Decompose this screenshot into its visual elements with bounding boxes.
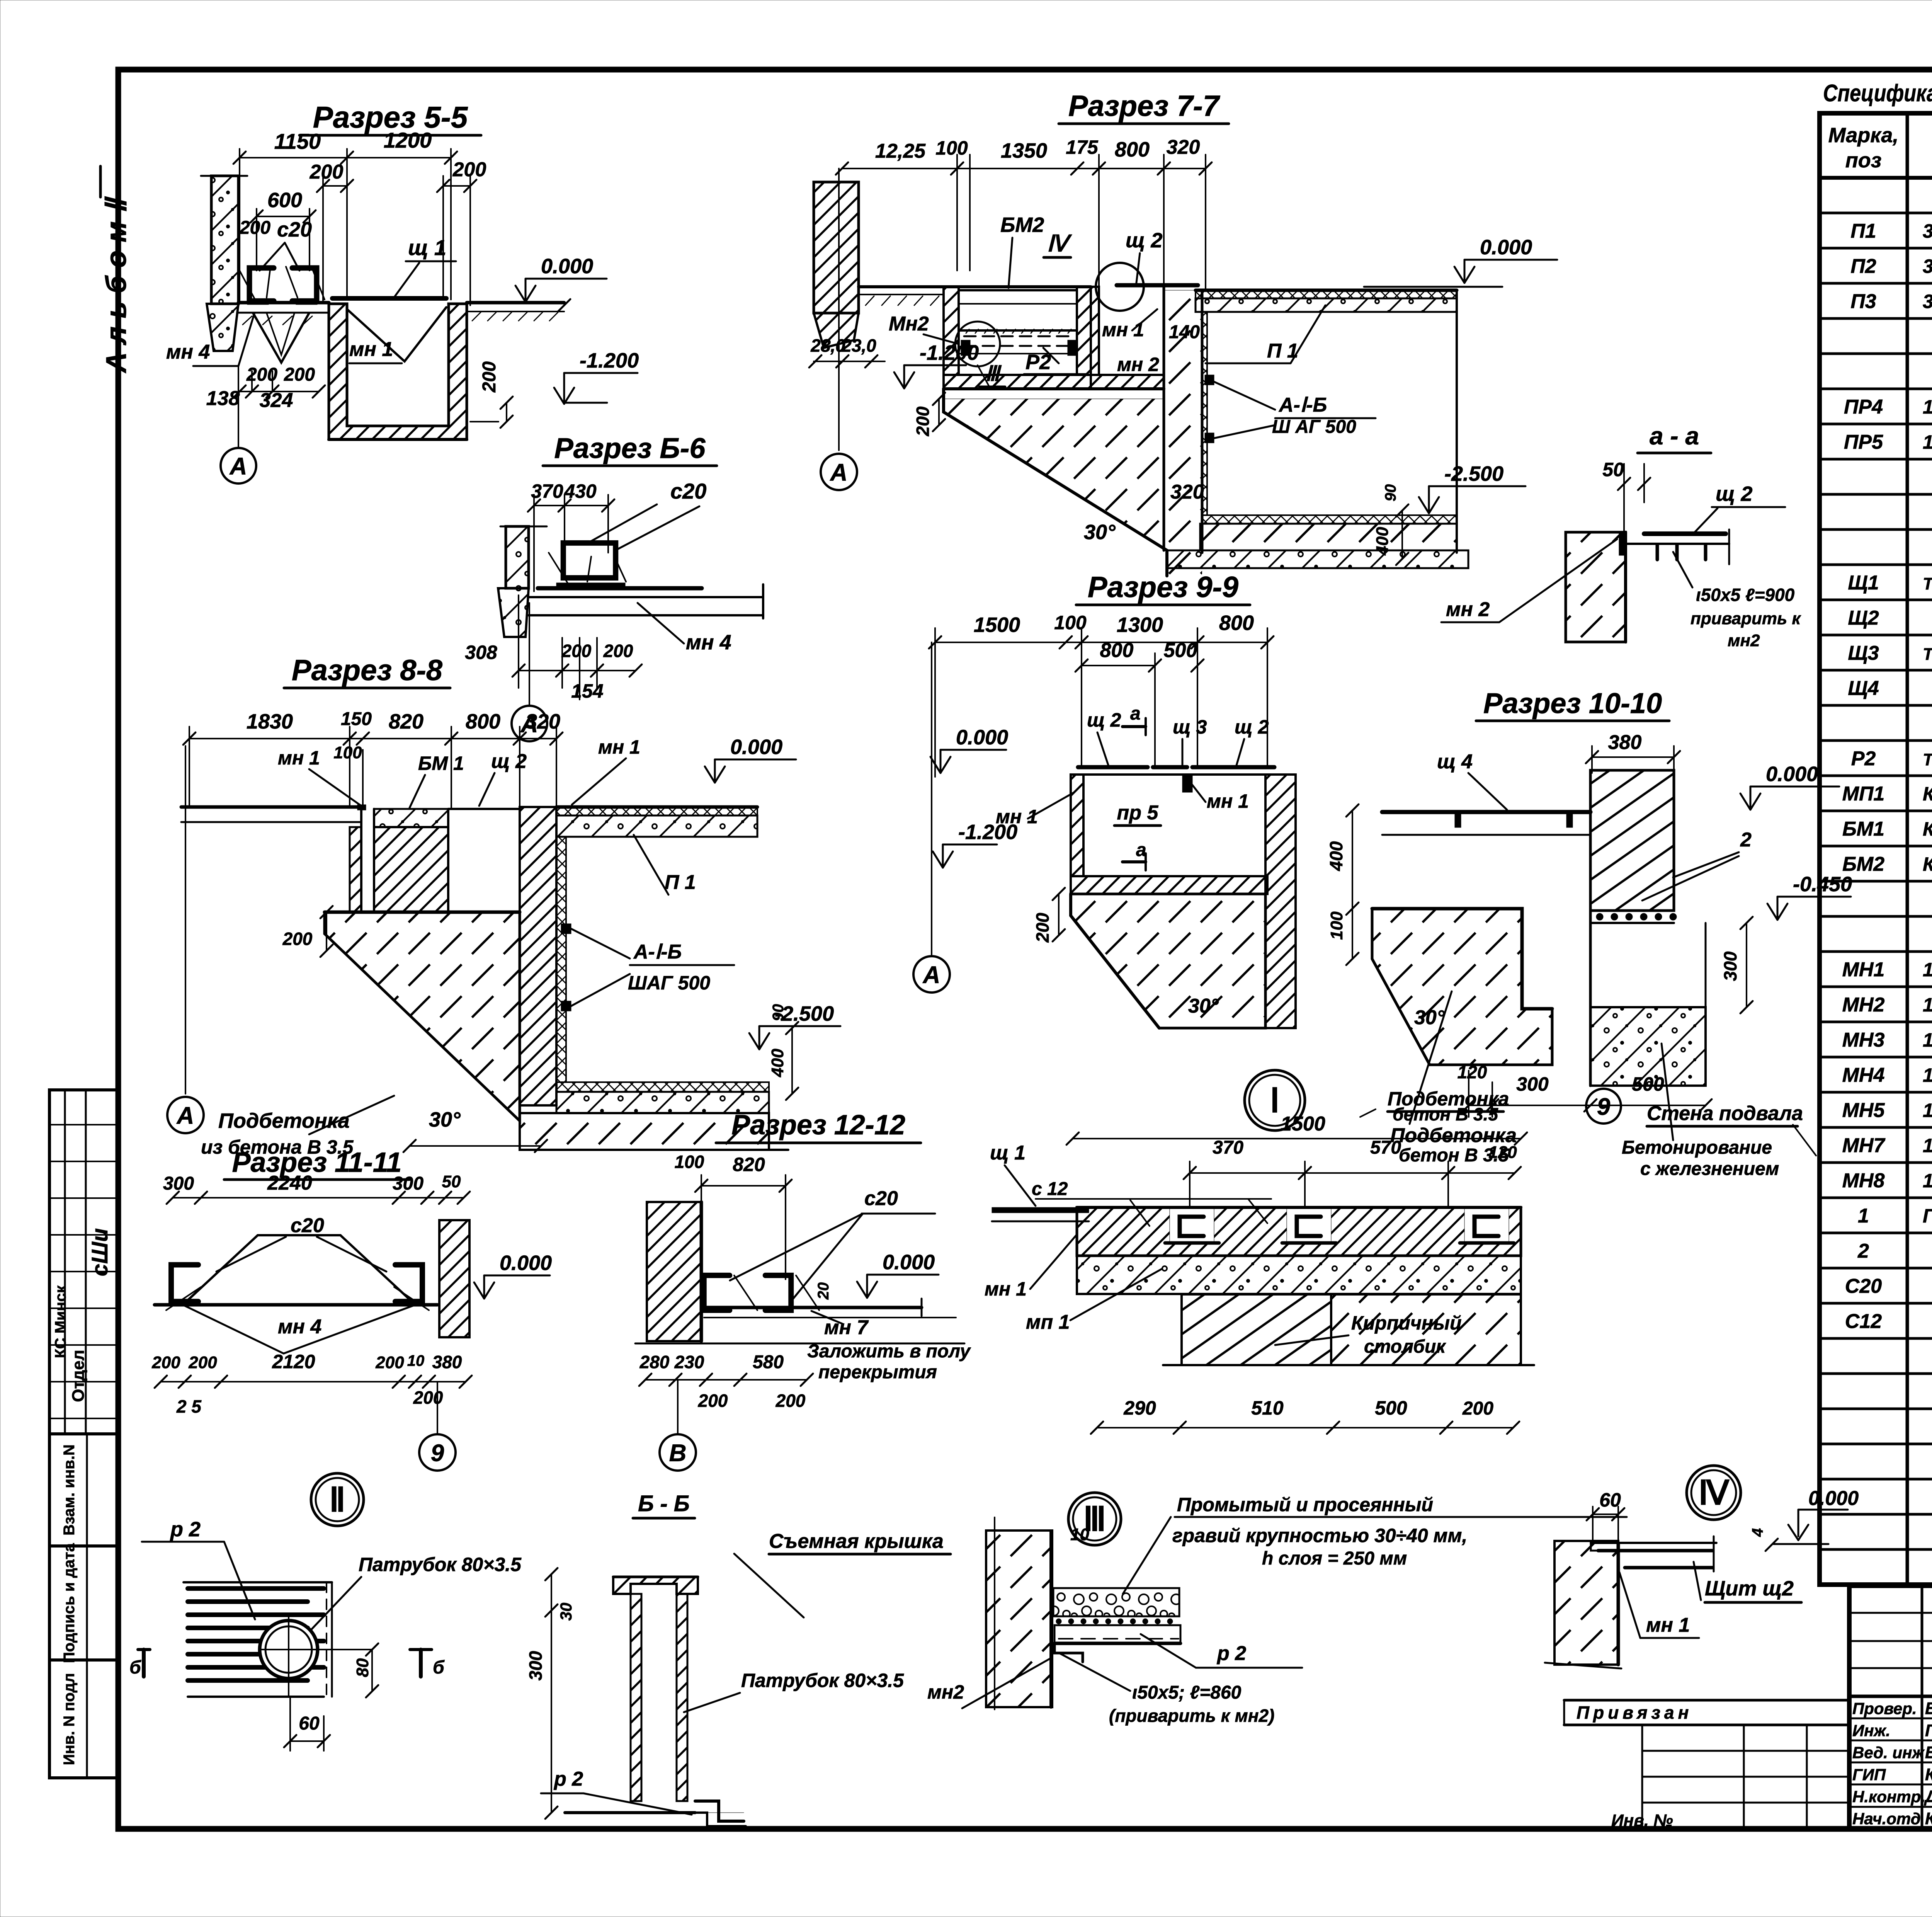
svg-text:ШАГ 500: ШАГ 500 xyxy=(628,972,710,994)
svg-text:300: 300 xyxy=(1720,951,1740,981)
svg-text:Н.контр.: Н.контр. xyxy=(1852,1788,1925,1806)
svg-text:Подпись и дата: Подпись и дата xyxy=(61,1543,78,1663)
svg-text:30°: 30° xyxy=(1188,995,1219,1017)
node III detail xyxy=(927,1493,1627,1726)
svg-text:200: 200 xyxy=(913,406,933,436)
svg-text:ТП902-1-134.88 КЖ.И 33.00: ТП902-1-134.88 КЖ.И 33.00 xyxy=(1923,750,1932,769)
svg-text:А: А xyxy=(176,1102,194,1129)
svg-text:Стена подвала: Стена подвала xyxy=(1647,1102,1803,1125)
svg-text:510: 510 xyxy=(1251,1397,1284,1419)
svg-text:500: 500 xyxy=(1375,1397,1407,1419)
svg-text:2: 2 xyxy=(1857,1240,1869,1262)
svg-text:БМ 1: БМ 1 xyxy=(418,752,464,774)
svg-text:1.400-15.В1. 430-07: 1.400-15.В1. 430-07 xyxy=(1923,1170,1932,1192)
svg-text:б: б xyxy=(433,1657,445,1678)
section 12-12 xyxy=(635,1110,971,1471)
svg-text:Взам. инв.N: Взам. инв.N xyxy=(61,1444,78,1536)
svg-text:0.000: 0.000 xyxy=(500,1251,552,1275)
svg-text:20: 20 xyxy=(815,1282,832,1300)
svg-text:Съемная крышка: Съемная крышка xyxy=(769,1530,944,1553)
svg-text:Заложить в полу: Заложить в полу xyxy=(807,1341,971,1362)
svg-text:12,25: 12,25 xyxy=(875,140,926,162)
svg-text:120: 120 xyxy=(1458,1062,1487,1082)
svg-text:30°: 30° xyxy=(429,1108,461,1131)
svg-text:320: 320 xyxy=(1167,136,1200,158)
svg-text:мн 1: мн 1 xyxy=(278,747,320,769)
svg-text:Бабикова: Бабикова xyxy=(1925,1743,1932,1762)
svg-text:Мн2: Мн2 xyxy=(889,313,929,335)
svg-text:800: 800 xyxy=(1115,138,1150,161)
svg-text:с20: с20 xyxy=(670,479,706,503)
svg-text:0.000: 0.000 xyxy=(1480,236,1532,259)
svg-text:Б - Б: Б - Б xyxy=(638,1491,690,1516)
svg-text:200: 200 xyxy=(151,1353,180,1372)
small revision table xyxy=(1564,1699,1849,1702)
svg-text:мн 1: мн 1 xyxy=(598,736,640,758)
section 9-9 xyxy=(913,571,1296,1028)
svg-text:МН4: МН4 xyxy=(1842,1064,1885,1086)
svg-text:р 2: р 2 xyxy=(1216,1642,1246,1665)
svg-text:А: А xyxy=(229,453,247,480)
svg-text:3.00Б.1-2/82.1-2.0-ББ: 3.00Б.1-2/82.1-2.0-ББ xyxy=(1923,220,1932,242)
svg-text:1.400-15.В1. 520-09: 1.400-15.В1. 520-09 xyxy=(1923,1100,1932,1121)
svg-text:МН2: МН2 xyxy=(1842,994,1885,1016)
svg-text:200: 200 xyxy=(284,364,315,385)
left margin stamp (lower) xyxy=(49,1434,118,1778)
svg-text:р 2: р 2 xyxy=(170,1518,201,1541)
svg-text:Ⅰ: Ⅰ xyxy=(1270,1082,1279,1119)
svg-text:ТП902-1-134.88КЖ.И 31.00: ТП902-1-134.88КЖ.И 31.00 xyxy=(1923,574,1932,593)
svg-text:Нач.отд: Нач.отд xyxy=(1852,1810,1921,1828)
svg-text:3.00Б.1-2/82.1-2-1.0-082: 3.00Б.1-2/82.1-2-1.0-082 xyxy=(1923,291,1932,312)
svg-text:мн2: мн2 xyxy=(1728,631,1760,650)
c20 channels xyxy=(563,543,589,578)
svg-text:0.000: 0.000 xyxy=(883,1251,935,1274)
svg-text:Ⅲ: Ⅲ xyxy=(985,362,1002,385)
svg-text:ι50х5; ℓ=860: ι50х5; ℓ=860 xyxy=(1132,1682,1242,1703)
svg-text:200: 200 xyxy=(375,1353,404,1372)
node II detail (grate) xyxy=(129,1473,522,1751)
svg-text:а: а xyxy=(1130,703,1141,724)
svg-text:Щ2: Щ2 xyxy=(1848,607,1879,629)
svg-text:300: 300 xyxy=(1516,1073,1549,1095)
svg-text:мн 2: мн 2 xyxy=(1446,598,1490,621)
section 8-8 xyxy=(167,654,840,1158)
svg-text:1150: 1150 xyxy=(274,129,321,153)
svg-text:с 12: с 12 xyxy=(1032,1179,1068,1199)
svg-text:А-Ⅰ-Б: А-Ⅰ-Б xyxy=(633,941,682,963)
svg-text:380: 380 xyxy=(1608,731,1642,754)
svg-text:столбик: столбик xyxy=(1364,1336,1446,1357)
svg-text:230: 230 xyxy=(674,1352,704,1372)
svg-text:Бабикова: Бабикова xyxy=(1925,1699,1932,1718)
svg-text:10: 10 xyxy=(407,1352,425,1369)
svg-text:1300: 1300 xyxy=(1117,613,1163,637)
svg-text:30: 30 xyxy=(557,1603,575,1621)
title block xyxy=(1849,1586,1932,1829)
svg-text:-2.500: -2.500 xyxy=(1444,462,1503,485)
svg-text:28,0: 28,0 xyxy=(810,335,845,356)
svg-text:щ 2: щ 2 xyxy=(1716,482,1753,506)
svg-text:1.400-15.В1. 430-06: 1.400-15.В1. 430-06 xyxy=(1923,1064,1932,1086)
svg-text:пр 5: пр 5 xyxy=(1117,802,1159,824)
svg-text:138: 138 xyxy=(206,387,240,410)
svg-text:100: 100 xyxy=(333,743,362,762)
svg-text:430: 430 xyxy=(564,480,597,502)
svg-text:перекрытия: перекрытия xyxy=(818,1362,937,1382)
svg-text:0.000: 0.000 xyxy=(1766,763,1818,786)
svg-text:320: 320 xyxy=(1170,481,1204,503)
svg-text:150: 150 xyxy=(341,709,372,729)
svg-text:мн 2: мн 2 xyxy=(1117,354,1159,375)
left margin stamp (upper) xyxy=(49,1090,118,1434)
svg-text:300: 300 xyxy=(526,1651,546,1680)
svg-text:С20: С20 xyxy=(1845,1275,1882,1297)
svg-text:Инв. №: Инв. № xyxy=(1611,1811,1673,1830)
svg-text:380: 380 xyxy=(432,1352,462,1372)
section 11-11 xyxy=(151,1147,552,1471)
album label xyxy=(100,166,132,373)
svg-text:Красавин: Красавин xyxy=(1925,1809,1932,1828)
svg-text:100: 100 xyxy=(675,1152,704,1172)
svg-text:200: 200 xyxy=(452,158,486,181)
svg-text:90: 90 xyxy=(1382,484,1399,502)
svg-text:мн 1: мн 1 xyxy=(985,1278,1027,1300)
svg-text:ι50х5 ℓ=900: ι50х5 ℓ=900 xyxy=(1696,585,1795,605)
svg-text:(приварить к мн2): (приварить к мн2) xyxy=(1109,1706,1274,1726)
svg-text:гравий крупностью 30÷40 мм,: гравий крупностью 30÷40 мм, xyxy=(1172,1525,1467,1546)
svg-text:600: 600 xyxy=(267,189,302,212)
svg-text:а - а: а - а xyxy=(1650,422,1699,450)
svg-text:290: 290 xyxy=(1123,1397,1156,1419)
svg-text:МН7: МН7 xyxy=(1842,1134,1886,1157)
svg-text:б: б xyxy=(129,1657,141,1678)
svg-text:ПР5: ПР5 xyxy=(1844,431,1883,453)
svg-text:1.038.1-1.1.010000-01: 1.038.1-1.1.010000-01 xyxy=(1923,431,1932,453)
svg-text:1500: 1500 xyxy=(974,613,1020,637)
svg-text:0.000: 0.000 xyxy=(541,255,593,278)
svg-text:1500: 1500 xyxy=(1281,1113,1325,1135)
svg-text:МН1: МН1 xyxy=(1842,958,1885,981)
svg-text:щ 4: щ 4 xyxy=(1437,751,1473,773)
svg-text:500: 500 xyxy=(1164,639,1197,662)
section 7-7 xyxy=(809,90,1557,576)
svg-text:154: 154 xyxy=(571,680,603,702)
svg-text:1: 1 xyxy=(1858,1205,1869,1227)
svg-text:мн 1: мн 1 xyxy=(349,338,393,361)
svg-text:Разрез 7-7: Разрез 7-7 xyxy=(1068,90,1221,123)
svg-text:Ⅳ: Ⅳ xyxy=(1698,1474,1730,1512)
svg-text:мн 4: мн 4 xyxy=(166,341,210,363)
svg-text:мн 1: мн 1 xyxy=(1207,790,1249,812)
svg-text:КЖ-9: КЖ-9 xyxy=(1923,783,1932,805)
svg-text:23,0: 23,0 xyxy=(841,335,876,356)
svg-text:400: 400 xyxy=(1373,527,1392,556)
svg-text:1.400-15.В1. 420-15: 1.400-15.В1. 420-15 xyxy=(1923,1135,1932,1156)
specification table xyxy=(1820,113,1932,1585)
svg-text:щ 2: щ 2 xyxy=(1087,709,1121,731)
svg-text:МН5: МН5 xyxy=(1842,1099,1885,1122)
svg-text:0.000: 0.000 xyxy=(956,726,1008,749)
svg-text:КЖ-9: КЖ-9 xyxy=(1923,853,1932,875)
svg-text:200: 200 xyxy=(561,641,592,661)
svg-text:мн 4: мн 4 xyxy=(686,631,731,654)
svg-text:Щ1: Щ1 xyxy=(1848,572,1879,594)
svg-text:200: 200 xyxy=(310,161,344,183)
svg-text:2 5: 2 5 xyxy=(176,1396,202,1416)
svg-text:175: 175 xyxy=(1066,136,1099,158)
svg-text:МП1: МП1 xyxy=(1842,783,1885,805)
svg-text:90: 90 xyxy=(770,1004,787,1021)
svg-text:ГОСТ 10704-76: ГОСТ 10704-76 xyxy=(1923,1205,1932,1227)
svg-text:Промытый и просеянный: Промытый и просеянный xyxy=(1177,1494,1433,1515)
svg-text:200: 200 xyxy=(1032,913,1053,943)
svg-text:А: А xyxy=(830,459,848,486)
svg-text:КС Минск: КС Минск xyxy=(52,1285,69,1358)
svg-text:60: 60 xyxy=(299,1713,320,1734)
svg-text:МН8: МН8 xyxy=(1842,1170,1885,1192)
svg-text:щ 2: щ 2 xyxy=(1126,229,1163,252)
svg-text:П2: П2 xyxy=(1850,255,1876,278)
svg-text:200: 200 xyxy=(603,641,633,661)
svg-text:Вед. инж: Вед. инж xyxy=(1852,1743,1925,1762)
svg-text:Щит щ2: Щит щ2 xyxy=(1705,1577,1794,1600)
svg-text:200: 200 xyxy=(413,1388,443,1408)
detail Б-Б (removable cover) xyxy=(526,1491,951,1826)
svg-text:щ 1: щ 1 xyxy=(990,1142,1026,1164)
wall (concrete) xyxy=(506,526,529,588)
svg-text:приварить к: приварить к xyxy=(1690,609,1801,628)
svg-text:1350: 1350 xyxy=(1001,139,1047,162)
svg-text:320: 320 xyxy=(526,710,560,733)
shield plate xyxy=(556,583,591,588)
c20 channels xyxy=(250,268,274,301)
svg-text:щ 1: щ 1 xyxy=(408,235,446,260)
svg-text:Отдел: Отдел xyxy=(69,1350,88,1402)
svg-text:ПР4: ПР4 xyxy=(1844,396,1883,418)
svg-text:Щ3: Щ3 xyxy=(1848,642,1879,664)
svg-text:3.00Б.1-2/82.1-2-1.0-094: 3.00Б.1-2/82.1-2-1.0-094 xyxy=(1923,255,1932,277)
section 6-6 xyxy=(465,432,763,741)
svg-text:П 1: П 1 xyxy=(665,871,696,894)
svg-text:0.000: 0.000 xyxy=(1808,1487,1859,1510)
svg-text:1.038.1-1.1 020000-04: 1.038.1-1.1 020000-04 xyxy=(1923,396,1932,418)
svg-text:МН3: МН3 xyxy=(1842,1029,1885,1051)
svg-text:Провер.: Провер. xyxy=(1852,1699,1917,1718)
svg-text:200: 200 xyxy=(479,361,500,393)
floor slab with MN4 anchors xyxy=(238,301,329,305)
svg-text:Марка,: Марка, xyxy=(1828,124,1899,147)
svg-text:Кирпичный: Кирпичный xyxy=(1351,1312,1462,1334)
svg-text:Разрез 8-8: Разрез 8-8 xyxy=(292,654,443,687)
svg-text:200: 200 xyxy=(1462,1398,1493,1419)
svg-text:570: 570 xyxy=(1370,1137,1401,1158)
svg-text:9: 9 xyxy=(1597,1093,1611,1120)
svg-text:КЖ-9: КЖ-9 xyxy=(1923,818,1932,840)
MN4 anchor xyxy=(253,313,309,363)
svg-text:400: 400 xyxy=(768,1049,787,1078)
svg-text:Р2: Р2 xyxy=(1851,747,1876,770)
svg-text:200: 200 xyxy=(776,1391,806,1411)
svg-text:300: 300 xyxy=(393,1173,423,1194)
svg-text:Данилевский: Данилевский xyxy=(1923,1787,1932,1806)
svg-text:поз: поз xyxy=(1845,149,1882,172)
svg-text:щ 3: щ 3 xyxy=(1173,716,1207,738)
svg-text:500: 500 xyxy=(1632,1073,1664,1095)
svg-text:Голованова: Голованова xyxy=(1925,1721,1932,1740)
node I detail xyxy=(985,1070,1816,1434)
svg-text:820: 820 xyxy=(389,710,423,733)
svg-text:200: 200 xyxy=(188,1353,217,1372)
svg-text:-1.200: -1.200 xyxy=(580,349,639,372)
svg-text:1.400-15.В1. 110-11: 1.400-15.В1. 110-11 xyxy=(1923,994,1932,1016)
svg-text:9: 9 xyxy=(431,1440,444,1466)
svg-text:1.400-15.В1. 540-09: 1.400-15.В1. 540-09 xyxy=(1923,959,1932,981)
svg-text:с20: с20 xyxy=(291,1214,324,1237)
svg-text:Патрубок 80×3.5: Патрубок 80×3.5 xyxy=(741,1670,904,1691)
svg-text:мн2: мн2 xyxy=(927,1681,964,1703)
svg-text:мн 4: мн 4 xyxy=(278,1316,321,1338)
svg-text:БМ2: БМ2 xyxy=(1000,213,1044,237)
svg-text:Спецификация к схеме распол: Спецификация к схеме расположения плит п… xyxy=(1823,80,1932,107)
svg-text:А: А xyxy=(922,962,940,988)
svg-text:Ⅱ: Ⅱ xyxy=(329,1481,345,1519)
svg-text:100: 100 xyxy=(935,137,968,159)
svg-text:0.000: 0.000 xyxy=(730,735,782,759)
svg-text:бетон В 3.5: бетон В 3.5 xyxy=(1393,1104,1498,1124)
svg-text:Ш АГ 500: Ш АГ 500 xyxy=(1272,417,1356,437)
svg-text:мн 1: мн 1 xyxy=(1646,1614,1690,1636)
svg-text:р 2: р 2 xyxy=(553,1768,583,1790)
svg-text:400: 400 xyxy=(1326,841,1346,871)
section 10-10 xyxy=(1326,687,1852,1179)
svg-text:30°: 30° xyxy=(1084,521,1116,544)
svg-text:370: 370 xyxy=(1213,1137,1243,1158)
svg-text:50: 50 xyxy=(442,1172,461,1191)
svg-text:1.400-15.В1. 420-14: 1.400-15.В1. 420-14 xyxy=(1923,1029,1932,1051)
svg-text:140: 140 xyxy=(1169,322,1200,342)
svg-text:Патрубок 80×3.5: Патрубок 80×3.5 xyxy=(359,1554,522,1575)
svg-text:БМ1: БМ1 xyxy=(1842,818,1884,840)
svg-text:щ 2: щ 2 xyxy=(491,750,527,773)
svg-text:с20: с20 xyxy=(277,218,312,241)
svg-text:-1.200: -1.200 xyxy=(958,821,1017,844)
detail a-a xyxy=(1441,422,1801,650)
svg-text:Кузнецов: Кузнецов xyxy=(1925,1765,1932,1784)
svg-text:В: В xyxy=(669,1440,687,1466)
svg-text:Инв. N подл: Инв. N подл xyxy=(61,1673,78,1765)
svg-text:2240: 2240 xyxy=(267,1172,312,1194)
svg-text:с20: с20 xyxy=(864,1187,898,1210)
svg-text:200: 200 xyxy=(282,929,313,949)
svg-text:Р2: Р2 xyxy=(1026,351,1051,374)
svg-text:сШи: сШи xyxy=(87,1228,112,1276)
svg-text:Щ4: Щ4 xyxy=(1848,677,1879,700)
svg-text:324: 324 xyxy=(260,389,293,412)
svg-text:800: 800 xyxy=(466,710,500,733)
svg-text:80: 80 xyxy=(353,1658,372,1677)
svg-text:А л ь б о м Ⅱ: А л ь б о м Ⅱ xyxy=(100,196,132,374)
svg-text:щ 2: щ 2 xyxy=(1235,716,1269,738)
svg-text:Подбетонка: Подбетонка xyxy=(218,1109,350,1132)
svg-text:h слоя = 250 мм: h слоя = 250 мм xyxy=(1262,1548,1407,1569)
svg-text:С12: С12 xyxy=(1845,1310,1882,1333)
svg-text:Привязан: Привязан xyxy=(1577,1702,1692,1723)
svg-text:1830: 1830 xyxy=(247,710,293,733)
svg-text:200: 200 xyxy=(698,1391,728,1411)
svg-text:2120: 2120 xyxy=(272,1351,315,1372)
svg-text:П1: П1 xyxy=(1850,220,1876,242)
svg-text:308: 308 xyxy=(465,642,497,663)
svg-text:мн 1: мн 1 xyxy=(1102,319,1144,340)
svg-text:200: 200 xyxy=(239,218,270,238)
svg-text:Разрез 9-9: Разрез 9-9 xyxy=(1088,571,1238,604)
svg-text:с железнением: с железнением xyxy=(1640,1159,1779,1179)
svg-text:Инж.: Инж. xyxy=(1852,1721,1890,1740)
svg-text:-0.450: -0.450 xyxy=(1793,873,1852,896)
svg-text:50: 50 xyxy=(1602,459,1624,480)
svg-text:800: 800 xyxy=(1219,611,1254,635)
svg-text:П3: П3 xyxy=(1850,290,1876,313)
svg-text:-1.200: -1.200 xyxy=(920,341,979,364)
wall (concrete) xyxy=(211,176,238,304)
svg-text:370: 370 xyxy=(531,480,563,502)
svg-text:100: 100 xyxy=(1327,911,1346,940)
channel pit xyxy=(329,304,467,439)
svg-text:Бетонирование: Бетонирование xyxy=(1622,1137,1772,1158)
svg-text:10: 10 xyxy=(1070,1525,1089,1544)
svg-text:Разрез 12-12: Разрез 12-12 xyxy=(731,1110,905,1141)
section 5-5 xyxy=(166,100,639,484)
svg-text:280: 280 xyxy=(639,1352,670,1372)
svg-text:мп 1: мп 1 xyxy=(1026,1311,1070,1333)
svg-text:820: 820 xyxy=(733,1154,765,1175)
svg-text:А-Ⅰ-Б: А-Ⅰ-Б xyxy=(1278,394,1327,416)
svg-text:1200: 1200 xyxy=(384,128,432,152)
svg-text:БМ2: БМ2 xyxy=(1842,853,1884,875)
svg-text:4: 4 xyxy=(1749,1528,1766,1537)
svg-text:Разрез 11-11: Разрез 11-11 xyxy=(232,1147,401,1178)
svg-text:ГИП: ГИП xyxy=(1852,1765,1886,1784)
svg-text:Разрез Б-6: Разрез Б-6 xyxy=(554,432,706,464)
svg-text:120: 120 xyxy=(1488,1143,1517,1162)
svg-text:2: 2 xyxy=(1740,829,1752,851)
svg-text:800: 800 xyxy=(1100,639,1134,662)
svg-text:580: 580 xyxy=(753,1352,784,1372)
node IV detail xyxy=(1545,1466,1859,1668)
svg-text:ТП902-1-134.88КЖ,И 32.00: ТП902-1-134.88КЖ,И 32.00 xyxy=(1923,645,1932,664)
svg-text:Разрез 10-10: Разрез 10-10 xyxy=(1483,687,1662,719)
